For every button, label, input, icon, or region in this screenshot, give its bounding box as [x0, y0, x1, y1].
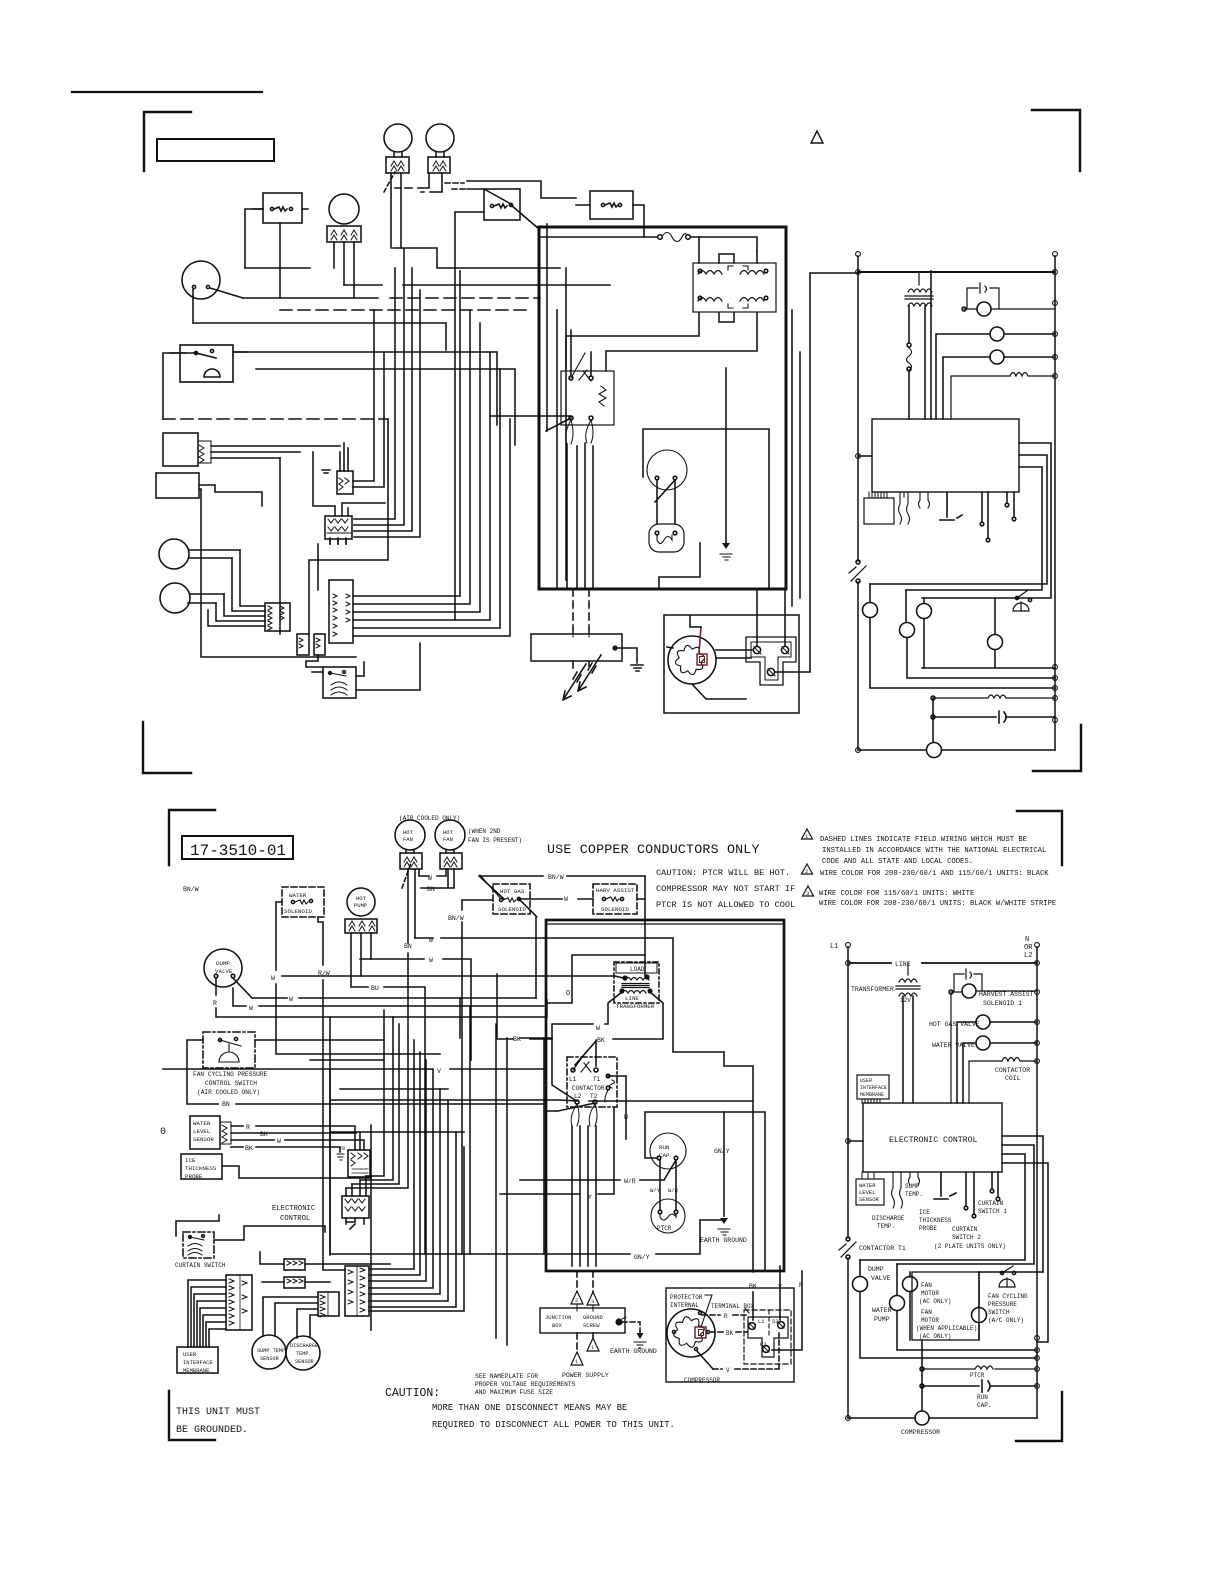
corner bracket bottom diagram BL: [169, 1391, 215, 1440]
water level sensor pins (top-right): [899, 492, 910, 524]
svg-text:W: W: [429, 957, 433, 964]
svg-text:TEMP.: TEMP.: [877, 1223, 895, 1230]
svg-text:INSTALLED IN ACCORDANCE WITH T: INSTALLED IN ACCORDANCE WITH THE NATIONA…: [822, 847, 1046, 855]
wire compressor leads (top): [716, 273, 858, 672]
svg-text:REQUIRED TO DISCONNECT ALL POW: REQUIRED TO DISCONNECT ALL POWER TO THIS…: [432, 1420, 675, 1430]
svg-text:DISCHARGE: DISCHARGE: [290, 1343, 318, 1349]
water pump (bottom-right): [890, 1296, 905, 1311]
fan motor M1: [384, 124, 412, 152]
svg-text:R: R: [799, 1282, 803, 1289]
svg-text:PUMP: PUMP: [874, 1316, 890, 1323]
run cap branch (bottom-right): [922, 1340, 1037, 1411]
svg-text:W: W: [249, 1005, 253, 1012]
fan motor box (bottom-right): [912, 1272, 979, 1340]
power supply arrows (top): [563, 664, 586, 700]
wire hot gas feed (bottom): [462, 876, 645, 1254]
svg-text:R: R: [246, 1124, 250, 1131]
user interface membrane (bottom-right): [857, 1075, 889, 1099]
hot fan motor 2 (bottom): [435, 820, 465, 850]
wire transformer feeds: [566, 237, 757, 371]
PTCR (top): [649, 524, 684, 552]
svg-text:2: 2: [805, 868, 808, 875]
svg-text:LOAD: LOAD: [630, 966, 645, 973]
svg-text:CURTAIN SWITCH: CURTAIN SWITCH: [175, 1262, 226, 1269]
svg-text:O: O: [566, 990, 570, 998]
sump temp pins (bottom-right): [909, 1172, 920, 1185]
svg-text:R: R: [724, 1313, 728, 1320]
sump temp sensor (top): [159, 539, 189, 569]
svg-text:COMPRESSOR: COMPRESSOR: [684, 1377, 720, 1384]
contactor (bottom): [567, 1057, 617, 1107]
earth ground branch (top): [725, 368, 727, 543]
wire sensor leads (bottom): [263, 1297, 318, 1338]
fan motor M2: [426, 124, 454, 152]
svg-text:70: 70: [339, 1146, 345, 1152]
connector 2-pin a (bottom): [284, 1259, 305, 1270]
corner bracket bottom diagram TR: [1017, 811, 1062, 865]
svg-text:17-3510-01: 17-3510-01: [190, 842, 286, 860]
svg-text:PROTECTOR: PROTECTOR: [670, 1294, 703, 1301]
ice thickness probe (bottom): [181, 1154, 222, 1179]
svg-text:S2: S2: [772, 1318, 779, 1325]
svg-text:HARVEST ASSIST: HARVEST ASSIST: [979, 991, 1034, 998]
node L1 rail (top-right section): [857, 256, 859, 750]
curtain switch (bottom): [183, 1232, 214, 1258]
svg-text:12V: 12V: [900, 997, 911, 1004]
svg-text:JUNCTION: JUNCTION: [545, 1314, 571, 1321]
wire compressor terminals (bottom): [697, 1351, 713, 1369]
revision triangle marker: [811, 131, 823, 143]
svg-text:SWITCH: SWITCH: [988, 1309, 1010, 1316]
water level sensor box (bottom-right): [856, 1179, 884, 1205]
svg-text:V: V: [726, 1367, 730, 1374]
PTCR branch (bottom-right): [922, 1366, 1037, 1369]
wire bundle to 6-pin (bottom): [369, 1040, 464, 1311]
wire hot pump leads: [334, 242, 354, 298]
wire lower horizontals (top): [199, 470, 420, 690]
wire bundle verticals (bottom): [330, 1010, 408, 1254]
note warning triangle symbols: [802, 829, 814, 896]
svg-text:CAP: CAP: [659, 1152, 670, 1159]
fuse (top-right secondary): [909, 306, 925, 419]
svg-text:MEMBRANE: MEMBRANE: [860, 1092, 884, 1098]
discharge temp sensor (bottom): [286, 1336, 320, 1370]
svg-text:TEMP.: TEMP.: [905, 1191, 923, 1198]
svg-text:3: 3: [591, 1299, 594, 1305]
svg-text:HOT GAS: HOT GAS: [500, 888, 525, 895]
svg-text:SENSOR: SENSOR: [295, 1359, 314, 1365]
wire curtain switch feed: [306, 655, 364, 676]
svg-text:INTERFACE: INTERFACE: [183, 1359, 213, 1366]
run capacitor (bottom): [650, 1133, 686, 1169]
svg-text:CURTAIN: CURTAIN: [978, 1200, 1004, 1207]
svg-text:HOT: HOT: [356, 895, 367, 902]
PTCR branch (top-right): [933, 695, 1055, 698]
water valve (top-right): [990, 350, 1004, 364]
terminal box (top): [746, 637, 796, 685]
compressor motor (top): [668, 636, 716, 684]
run capacitor (top): [647, 450, 687, 490]
svg-text:MOTOR: MOTOR: [921, 1290, 939, 1297]
fan cycling pressure switch (top-right): [1013, 590, 1029, 611]
wire transformer leads (bottom): [546, 955, 663, 1100]
svg-text:WATER: WATER: [193, 1120, 211, 1127]
contactor (top): [561, 371, 614, 425]
svg-text:ELECTRONIC CONTROL: ELECTRONIC CONTROL: [889, 1136, 978, 1145]
water valve (bottom-right): [976, 1036, 990, 1050]
line transformer assembly (bottom): [614, 962, 659, 1003]
fan cycling pressure control switch (bottom): [203, 1032, 255, 1068]
hot gas solenoid (bottom): [493, 884, 530, 914]
svg-text:HOT GAS VALVE: HOT GAS VALVE: [929, 1021, 980, 1028]
svg-text:SENSOR: SENSOR: [260, 1356, 279, 1362]
corner bracket top diagram TL: [144, 112, 191, 171]
compressor box (top): [664, 615, 799, 713]
run cap enclosure (bottom): [645, 1112, 765, 1271]
user interface membrane box (top-right): [864, 498, 894, 524]
fan motor 2 (bottom-right): [972, 1308, 987, 1323]
wire water level sensor leads: [211, 446, 340, 458]
svg-text:PROPER VOLTAGE REQUIREMENTS: PROPER VOLTAGE REQUIREMENTS: [475, 1381, 576, 1388]
svg-text:WIRE COLOR FOR 208-230/60/1 UN: WIRE COLOR FOR 208-230/60/1 UNITS: BLACK…: [819, 900, 1056, 908]
wire hot pump leads (bottom): [351, 933, 371, 987]
wire power feeds (bottom, dashed): [577, 1271, 593, 1352]
node L1 rail (bottom-right): [847, 947, 849, 1418]
water solenoid box: [263, 193, 302, 223]
svg-text:FAN: FAN: [443, 836, 453, 843]
corner bracket top diagram TR: [1032, 110, 1080, 171]
svg-text:WATER: WATER: [859, 1182, 876, 1189]
svg-text:W: W: [428, 875, 432, 882]
wire line tie (bottom-right): [848, 962, 1037, 964]
svg-text:2: 2: [575, 1298, 578, 1304]
svg-text:GROUND: GROUND: [583, 1314, 604, 1321]
svg-text:FAN IS PRESENT): FAN IS PRESENT): [468, 837, 522, 844]
svg-text:FAN: FAN: [921, 1282, 932, 1289]
svg-text:VALVE: VALVE: [871, 1275, 891, 1282]
svg-text:SENSOR: SENSOR: [193, 1136, 214, 1143]
svg-text:BOX: BOX: [552, 1322, 563, 1329]
node N/L2 rail (bottom-right): [1036, 947, 1038, 1418]
svg-text:T2: T2: [590, 1093, 598, 1100]
hot gas solenoid box: [484, 189, 520, 220]
svg-text:MOTOR: MOTOR: [921, 1317, 939, 1324]
svg-text:PTCR: PTCR: [970, 1372, 985, 1379]
svg-text:W: W: [596, 1025, 600, 1032]
svg-text:SOLENOID: SOLENOID: [601, 906, 629, 913]
svg-text:COIL: COIL: [1005, 1075, 1021, 1082]
line transformer (top, coil style): [693, 263, 776, 312]
electronic control box (bottom-right): [863, 1103, 1002, 1172]
connector 4-pin (bottom): [342, 1196, 369, 1218]
wire water solenoid leads: [245, 209, 280, 298]
svg-text:SUMP: SUMP: [905, 1183, 920, 1190]
svg-text:PROBE: PROBE: [919, 1225, 937, 1232]
power supply triangles: [571, 1291, 599, 1365]
svg-text:W: W: [564, 896, 568, 903]
svg-text:Y: Y: [778, 1284, 782, 1291]
wire bundle horizontals (bottom): [163, 938, 722, 1330]
svg-text:LEVEL: LEVEL: [859, 1189, 876, 1196]
svg-text:W: W: [624, 1114, 628, 1121]
svg-text:ELECTRONIC: ELECTRONIC: [272, 1205, 316, 1213]
svg-text:CODE AND ALL STATE AND LOCAL C: CODE AND ALL STATE AND LOCAL CODES.: [822, 858, 973, 866]
svg-text:ICE: ICE: [919, 1209, 930, 1216]
svg-text:DUMP: DUMP: [216, 960, 230, 967]
harvest assist solenoid (top-right): [977, 302, 991, 316]
svg-text:1: 1: [591, 1345, 594, 1351]
wire compressor drops (bottom): [772, 1266, 802, 1350]
svg-text:1: 1: [575, 1359, 578, 1365]
svg-text:OR: OR: [1024, 944, 1033, 952]
svg-text:SOLENOID 1: SOLENOID 1: [983, 1000, 1022, 1007]
svg-text:HOT: HOT: [403, 829, 414, 836]
svg-text:AND MAXIMUM FUSE SIZE: AND MAXIMUM FUSE SIZE: [475, 1389, 553, 1396]
wire membrane ribbon (bottom): [188, 1280, 226, 1347]
ice thickness probe pin (bottom-right): [934, 1172, 956, 1199]
svg-text:BK: BK: [513, 1036, 521, 1043]
svg-text:Y: Y: [588, 1194, 592, 1201]
wire contactor feeds: [490, 224, 593, 589]
svg-text:DUMP: DUMP: [868, 1266, 884, 1273]
svg-text:SENSOR: SENSOR: [859, 1196, 880, 1203]
wire contactor feeds (bottom): [520, 938, 753, 1320]
corner bracket bottom diagram BR: [1016, 1392, 1062, 1441]
wire water level leads (bottom): [231, 1126, 364, 1152]
corner bracket top diagram BR: [1033, 725, 1081, 771]
electronic control box (top-right): [872, 419, 1019, 492]
svg-text:(AIR COOLED ONLY): (AIR COOLED ONLY): [399, 815, 460, 822]
water level sensor box (top): [163, 433, 198, 466]
dump valve: [182, 261, 220, 299]
fuse F1: [541, 237, 757, 251]
svg-text:BK: BK: [260, 1131, 268, 1138]
wire fan-cycling left drop: [163, 353, 197, 419]
corner bracket bottom diagram TL: [169, 810, 215, 865]
connector 2-pin b (bottom): [284, 1277, 305, 1288]
svg-text:RUN: RUN: [977, 1394, 988, 1401]
svg-text:W: W: [271, 975, 275, 982]
curtain switch 2 pins (bottom-right): [966, 1172, 974, 1213]
svg-text:CONTACTOR T1: CONTACTOR T1: [859, 1245, 906, 1252]
svg-text:BN: BN: [222, 1101, 230, 1108]
contactor coil (top-right): [951, 373, 1055, 420]
contactor coil (bottom-right): [969, 1058, 1037, 1104]
svg-text:W: W: [429, 937, 433, 944]
svg-text:WIRE COLOR FOR 208-230/60/1 AN: WIRE COLOR FOR 208-230/60/1 AND 115/60/1…: [820, 870, 1049, 878]
svg-text:LINE: LINE: [895, 961, 911, 968]
svg-text:L1: L1: [758, 1318, 765, 1325]
svg-text:L1: L1: [830, 943, 838, 951]
svg-text:ICE: ICE: [185, 1157, 196, 1164]
svg-text:DASHED LINES INDICATE FIELD WI: DASHED LINES INDICATE FIELD WIRING WHICH…: [820, 836, 1027, 844]
wire curtain switch leads (bottom): [176, 1215, 325, 1240]
ice thickness probe box (top): [156, 473, 199, 498]
dump valve (top-right): [863, 603, 878, 618]
svg-text:SWITCH 1: SWITCH 1: [978, 1208, 1007, 1215]
wire top tie (top-right): [858, 271, 1055, 273]
svg-text:TRANSFORMER: TRANSFORMER: [851, 986, 894, 993]
svg-text:HOT: HOT: [443, 829, 454, 836]
svg-text:R: R: [213, 1000, 217, 1007]
hot fan motor 1 (bottom): [395, 820, 425, 850]
connector 6-pin (bottom): [345, 1266, 369, 1316]
wire fan M2 leads: [395, 152, 444, 192]
svg-text:THICKNESS: THICKNESS: [185, 1165, 217, 1172]
svg-text:CONTROL SWITCH: CONTROL SWITCH: [205, 1080, 257, 1087]
svg-text:GN/Y: GN/Y: [714, 1148, 730, 1155]
dump valve (bottom-right): [853, 1277, 868, 1292]
svg-text:FAN: FAN: [403, 836, 413, 843]
svg-text:WATER VALVE: WATER VALVE: [932, 1042, 975, 1049]
svg-text:L1: L1: [569, 1076, 577, 1083]
junction box (bottom): [540, 1308, 625, 1333]
wire earth ground screw (bottom): [622, 1322, 640, 1334]
svg-text:CAUTION: PTCR WILL BE HOT.: CAUTION: PTCR WILL BE HOT.: [656, 868, 790, 878]
svg-text:PTCR: PTCR: [657, 1225, 672, 1232]
wire hot fan leads (bottom): [406, 850, 454, 853]
svg-text:COMPRESSOR MAY NOT START IF: COMPRESSOR MAY NOT START IF: [656, 884, 795, 894]
svg-text:SEE NAMEPLATE FOR: SEE NAMEPLATE FOR: [475, 1373, 538, 1380]
svg-text:L2: L2: [574, 1093, 582, 1100]
wire 2-pin feeds: [260, 1252, 390, 1282]
terminal box (bottom, dashed): [744, 1310, 791, 1364]
svg-text:(WHEN APPLICABLE): (WHEN APPLICABLE): [916, 1325, 977, 1332]
title box (empty): [157, 139, 274, 161]
dump valve (bottom): [204, 949, 242, 987]
svg-text:T1: T1: [593, 1076, 601, 1083]
svg-text:W: W: [277, 1138, 281, 1145]
compressor box (bottom): [666, 1288, 794, 1382]
sump temp sensor (bottom): [252, 1335, 286, 1369]
PTCR (bottom): [651, 1199, 685, 1233]
svg-text:0: 0: [160, 1127, 166, 1138]
svg-text:CAUTION:: CAUTION:: [385, 1387, 440, 1400]
svg-text:CONTACTOR: CONTACTOR: [995, 1067, 1030, 1074]
big control enclosure box (top): [539, 227, 786, 589]
discharge temp pins (bottom-right): [892, 1172, 903, 1208]
svg-text:CAP.: CAP.: [977, 1402, 991, 1409]
wire control outputs right side (top-right): [870, 443, 1051, 598]
svg-text:SWITCH 2: SWITCH 2: [952, 1234, 981, 1241]
svg-text:W/R: W/R: [624, 1178, 636, 1185]
contactor aux switch on rail (bottom-right): [847, 1240, 850, 1256]
svg-text:MEMBRANE: MEMBRANE: [183, 1367, 210, 1374]
svg-text:FAN CYCLING: FAN CYCLING: [988, 1293, 1028, 1300]
fan cycling pressure switch (top): [180, 345, 233, 382]
wire dump valve leads: [193, 288, 243, 323]
big control enclosure (bottom): [546, 920, 784, 1271]
svg-text:SOLENOID: SOLENOID: [498, 906, 526, 913]
svg-text:POWER SUPPLY: POWER SUPPLY: [562, 1372, 609, 1379]
ice thickness probe pin (top-right): [940, 492, 962, 520]
svg-text:PROBE: PROBE: [185, 1173, 203, 1180]
wire fan loop ties (top-right): [922, 667, 1055, 669]
svg-text:EARTH GROUND: EARTH GROUND: [700, 1237, 747, 1244]
svg-text:TERMINAL BOX: TERMINAL BOX: [711, 1303, 755, 1310]
corner bracket top diagram BL: [143, 722, 191, 773]
svg-text:HARV ASSIST: HARV ASSIST: [596, 887, 635, 894]
svg-text:SCREW: SCREW: [583, 1322, 600, 1329]
svg-text:COMPRESSOR: COMPRESSOR: [901, 1429, 940, 1436]
fan motor 1 (top-right): [917, 604, 932, 619]
svg-text:USER: USER: [860, 1078, 872, 1084]
svg-text:BU: BU: [371, 985, 379, 992]
svg-text:R3: R3: [760, 1341, 767, 1348]
svg-text:BN: BN: [404, 943, 412, 950]
svg-text:BN: BN: [427, 886, 435, 893]
svg-text:(A/C ONLY): (A/C ONLY): [988, 1317, 1024, 1324]
svg-text:(AC ONLY): (AC ONLY): [919, 1333, 951, 1340]
connector 3-pin (top): [337, 471, 353, 494]
svg-text:DISCHARGE: DISCHARGE: [872, 1215, 905, 1222]
svg-text:WIRE COLOR FOR 115/60/1 UNITS:: WIRE COLOR FOR 115/60/1 UNITS: WHITE: [819, 890, 974, 898]
connector 4-pin (top): [325, 516, 352, 539]
curtain switch 1 pins (bottom-right): [992, 1172, 998, 1196]
svg-text:BN/W: BN/W: [183, 886, 199, 893]
svg-text:PUMP: PUMP: [354, 902, 367, 909]
connector sensor 4-pin (bottom): [318, 1292, 339, 1316]
svg-text:W: W: [289, 996, 293, 1003]
hot gas valve (top-right): [990, 327, 1004, 341]
svg-text:W/Y: W/Y: [650, 1187, 661, 1194]
user interface membrane box (bottom): [177, 1347, 218, 1373]
svg-text:N: N: [1025, 936, 1029, 944]
wire drop bundle (top): [353, 249, 420, 537]
junction box (top): [531, 634, 622, 661]
wire power feeds (top, dashed): [573, 589, 589, 672]
curtain switch box (top): [323, 667, 356, 698]
svg-text:BK: BK: [597, 1037, 605, 1044]
wire dump valve leads (bottom): [216, 978, 546, 1254]
discharge temp sensor (top): [160, 583, 190, 613]
svg-text:MORE THAN ONE DISCONNECT MEANS: MORE THAN ONE DISCONNECT MEANS MAY BE: [432, 1403, 627, 1413]
svg-text:CONTACTOR: CONTACTOR: [572, 1085, 605, 1092]
connector 3-pin (bottom): [348, 1150, 370, 1177]
water level sensor (bottom): [190, 1116, 220, 1149]
run capacitor branch (top-right): [933, 698, 1055, 742]
wire hot-gas feed: [467, 181, 576, 198]
compressor (top-right): [927, 743, 942, 758]
svg-text:TRANSFORMER: TRANSFORMER: [616, 1003, 655, 1010]
contactor aux switch on L1 rail (top-right): [857, 563, 860, 580]
svg-text:PTCR IS NOT ALLOWED TO COOL: PTCR IS NOT ALLOWED TO COOL: [656, 900, 795, 910]
earth ground (bottom box): [723, 1112, 725, 1216]
header rule: [72, 91, 262, 93]
curtain switch 1 pins (top-right): [1007, 492, 1014, 516]
svg-text:SOLENOID: SOLENOID: [284, 908, 312, 915]
leader lines protector/terminal: [701, 1295, 749, 1327]
svg-text:THICKNESS: THICKNESS: [919, 1217, 952, 1224]
svg-text:CONTROL: CONTROL: [280, 1215, 310, 1223]
svg-text:L2: L2: [1024, 952, 1032, 960]
svg-text:R/W: R/W: [318, 970, 330, 977]
transformer (bottom-right): [896, 963, 920, 996]
svg-text:LINE: LINE: [625, 995, 639, 1002]
svg-text:GN/Y: GN/Y: [634, 1254, 650, 1261]
svg-text:USE COPPER CONDUCTORS ONLY: USE COPPER CONDUCTORS ONLY: [547, 842, 760, 857]
svg-text:WATER: WATER: [872, 1307, 892, 1314]
svg-text:(AC ONLY): (AC ONLY): [919, 1298, 951, 1305]
svg-text:RUN: RUN: [659, 1144, 670, 1151]
wire long risers to right (bottom): [460, 998, 547, 1345]
svg-text:V: V: [437, 1068, 441, 1075]
compressor motor (bottom): [667, 1309, 715, 1357]
svg-text:EARTH GROUND: EARTH GROUND: [610, 1348, 657, 1355]
harvest assist solenoid 1 (bottom-right): [962, 984, 976, 998]
svg-text:TEMP.: TEMP.: [296, 1351, 312, 1357]
svg-text:SUMP TEMP.: SUMP TEMP.: [257, 1348, 288, 1354]
